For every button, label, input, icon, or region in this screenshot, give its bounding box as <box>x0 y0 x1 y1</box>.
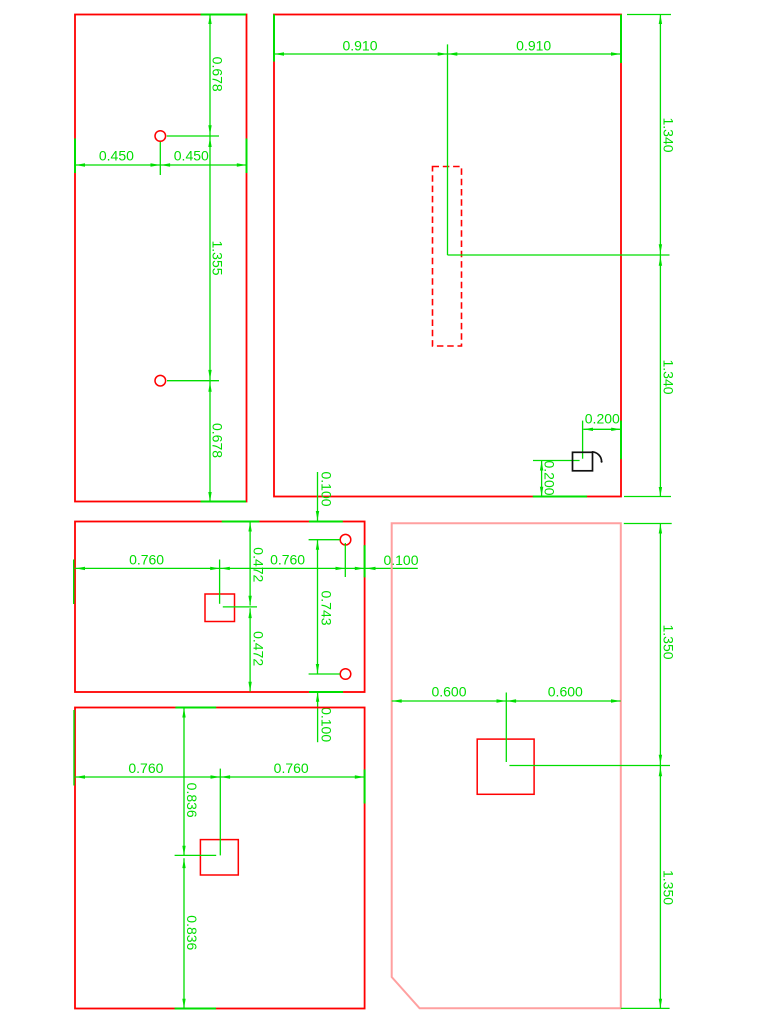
gap dim 0.100 C-D line <box>317 692 319 742</box>
svg-text:0.760: 0.760 <box>129 552 164 568</box>
svg-text:0.910: 0.910 <box>516 38 551 54</box>
panel B arrowheads <box>275 52 285 55</box>
panel D 0.760 dim line <box>75 776 365 778</box>
panel C outline <box>75 522 365 693</box>
svg-text:1.355: 1.355 <box>209 240 225 275</box>
panel A outline <box>75 15 247 502</box>
panel A extension lines <box>160 136 219 381</box>
svg-text:0.743: 0.743 <box>319 590 335 625</box>
panel B 0.200 vertical dim line <box>541 461 543 497</box>
panel E mid horizontal extension <box>509 765 670 767</box>
svg-text:1.340: 1.340 <box>661 117 677 152</box>
panel C hole 2 <box>340 669 351 680</box>
panel D square centre horizontal extension <box>175 854 217 856</box>
panel B dashed cutout <box>433 167 462 347</box>
svg-text:0.472: 0.472 <box>251 547 267 582</box>
panel A hole 2 <box>155 375 166 386</box>
panel C 0.743 dim line <box>317 540 319 674</box>
panel E bottom horizontal extension <box>621 1007 670 1009</box>
svg-text:0.200: 0.200 <box>541 460 557 495</box>
panel C hole 1 <box>340 534 351 545</box>
panel E red square cutout <box>477 739 534 794</box>
panel B 1.340 dim lines <box>659 15 661 497</box>
panel B 0.200 horizontal dim line <box>583 428 621 430</box>
panel E 1.350 dim lines <box>659 524 661 1009</box>
panel C hole2 horizontal extension <box>309 673 340 675</box>
panel B 0.200 vertical extension <box>582 421 584 459</box>
svg-text:0.100: 0.100 <box>383 552 418 568</box>
svg-text:0.100: 0.100 <box>318 707 334 742</box>
svg-text:1.340: 1.340 <box>661 359 677 394</box>
panel E 0.600 dim line <box>392 700 621 702</box>
svg-text:0.836: 0.836 <box>184 915 200 950</box>
panel B edge extension overlaps <box>274 15 621 497</box>
svg-text:0.600: 0.600 <box>431 684 466 700</box>
panel C 0.760/0.100 dim line <box>75 567 418 569</box>
svg-text:1.350: 1.350 <box>661 624 677 659</box>
black annotation symbol <box>573 452 603 471</box>
panel D arrowheads <box>76 775 86 778</box>
svg-text:0.100: 0.100 <box>318 471 334 506</box>
svg-text:0.760: 0.760 <box>274 760 309 776</box>
panel E centre vertical extension <box>505 693 507 763</box>
panel A arrowheads <box>208 15 211 25</box>
svg-text:0.450: 0.450 <box>99 148 134 164</box>
svg-text:0.910: 0.910 <box>342 38 377 54</box>
panel B 0.910 dim line <box>274 53 621 55</box>
panel C hole1 vertical extension <box>344 543 346 577</box>
panel D edge extension overlaps <box>74 708 365 1009</box>
svg-text:0.760: 0.760 <box>270 552 305 568</box>
panel C arrowheads <box>76 567 86 570</box>
svg-text:0.760: 0.760 <box>128 760 163 776</box>
panel B outline <box>274 15 621 497</box>
gap dim 0.100 B-C line <box>317 472 319 521</box>
panel A dim line horizontal 0.450/0.450 <box>75 164 247 166</box>
panel E pink outline with chamfer <box>392 523 621 1008</box>
panel B mid horizontal extension <box>448 254 670 256</box>
panel D square cutout <box>200 840 238 875</box>
panel A hole 1 <box>155 131 166 142</box>
panel C square centre horizontal extension <box>223 606 257 608</box>
svg-text:1.350: 1.350 <box>661 870 677 905</box>
svg-text:0.200: 0.200 <box>585 411 620 427</box>
svg-text:0.450: 0.450 <box>174 148 209 164</box>
panel D 0.836 dim lines <box>183 708 185 856</box>
panel B centre vertical extension <box>447 44 449 255</box>
svg-text:0.678: 0.678 <box>209 423 225 458</box>
svg-text:0.678: 0.678 <box>209 57 225 92</box>
panel B top horizontal extension <box>627 14 671 16</box>
svg-text:0.472: 0.472 <box>251 631 267 666</box>
panel C square cutout <box>205 594 235 622</box>
panel D outline <box>75 708 365 1009</box>
panel C square centre vertical extension <box>219 560 221 604</box>
svg-text:0.836: 0.836 <box>184 783 200 818</box>
panel B bottom horizontal extension <box>624 496 671 498</box>
panel C edge extension overlaps <box>74 522 365 693</box>
panel D square centre vertical extension <box>219 769 221 856</box>
panel C 0.472 dim lines <box>249 522 251 606</box>
panel B 0.200 horizontal extension <box>533 460 580 462</box>
svg-text:0.600: 0.600 <box>548 684 583 700</box>
panel C hole1 horizontal extension <box>309 539 340 541</box>
panel E top horizontal extension <box>624 523 672 525</box>
panel A dim line vertical 0.678/1.355/0.678 <box>209 15 211 502</box>
panel E arrowheads <box>392 699 402 702</box>
panel A edge extension overlaps <box>75 15 247 502</box>
